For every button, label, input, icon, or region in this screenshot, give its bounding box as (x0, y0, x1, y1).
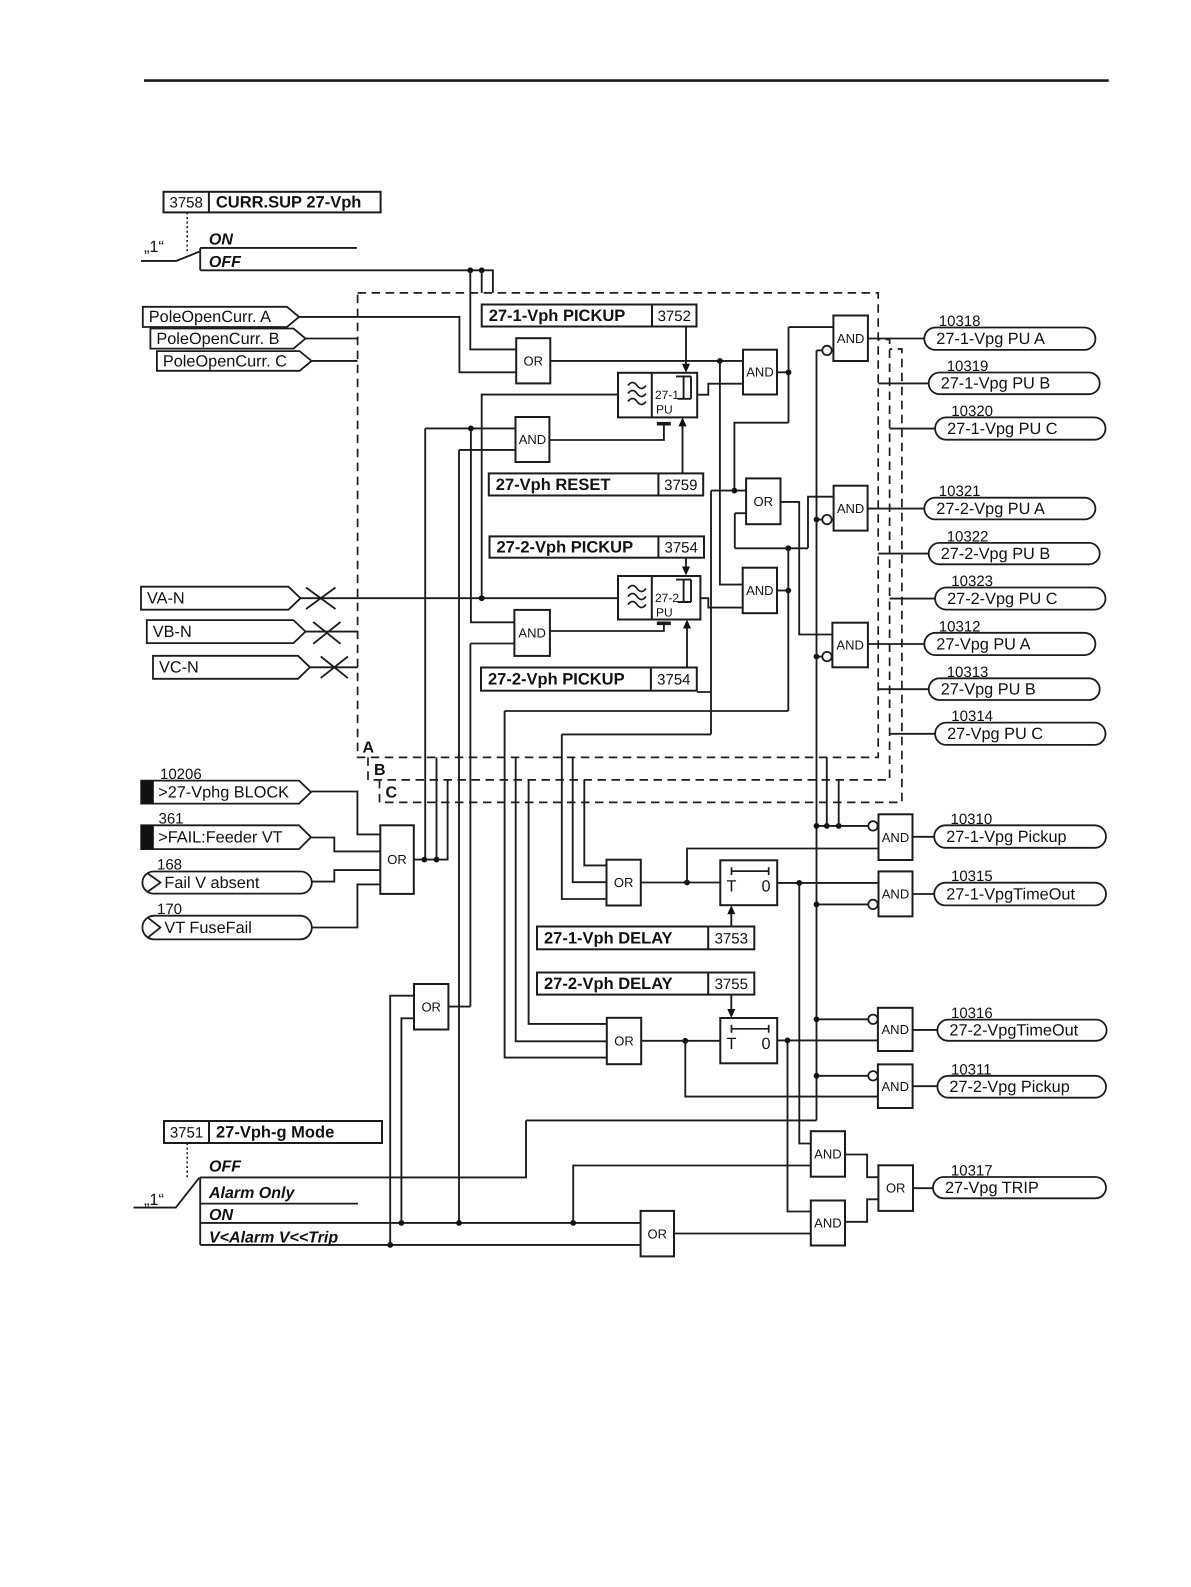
AND gate A2 (27-2 pickup A) (743, 568, 777, 614)
wire box B to pill 10319 (878, 382, 929, 384)
svg-text:PU: PU (656, 606, 673, 620)
wire G1 to pill 10318 (868, 338, 924, 340)
svg-text:3758: 3758 (170, 195, 203, 212)
input tag VA-N (141, 587, 301, 610)
svg-text:AND: AND (836, 638, 863, 653)
dashed phase box C (380, 349, 902, 802)
wire 3759 to measuring box 27-1 (682, 425, 684, 473)
svg-text:27-1-Vph DELAY: 27-1-Vph DELAY (544, 929, 673, 947)
svg-text:AND: AND (814, 1147, 841, 1162)
wire OR D2 output to timer T2 (641, 1040, 720, 1042)
svg-text:27-2-Vpg PU A: 27-2-Vpg PU A (936, 500, 1045, 518)
wire Alarm Only underline (200, 1203, 358, 1205)
svg-text:ON: ON (209, 1207, 233, 1224)
wire 27-1 pickup C to delay OR (584, 780, 606, 865)
output pill 10317 27-Vpg TRIP (933, 1163, 1106, 1199)
wire PoleOpenCurr.A to OR O1 (299, 317, 516, 372)
wire VB-N stub (306, 631, 358, 633)
output pill 10312 27-Vpg PU A (924, 618, 1095, 655)
AND gate A1 (27-1 pickup A) (743, 350, 777, 395)
junction V-Alarm (387, 1242, 393, 1248)
junction block G2 (814, 517, 820, 523)
svg-text:27-1-Vph PICKUP: 27-1-Vph PICKUP (489, 307, 626, 325)
AND gate G2 (27-2-Vpg PU A) (834, 486, 868, 531)
junction O1 output (717, 358, 723, 364)
svg-text:OR: OR (886, 1181, 906, 1196)
dashed phase box B (368, 339, 890, 780)
parameter box 3751 27-Vph-g Mode (164, 1121, 382, 1143)
svg-text:27-2-Vpg PU C: 27-2-Vpg PU C (947, 590, 1058, 608)
wire AND B2 output to reset bar 27-2 (550, 625, 664, 632)
output pill 10322 27-2-Vpg PU B (929, 528, 1100, 564)
wire block stub G3 (817, 656, 822, 658)
svg-text:27-1: 27-1 (655, 388, 679, 402)
wire 3755 to timer T2 (730, 995, 732, 1010)
AND gate T-bottom (27-2 trip) (811, 1201, 845, 1246)
svg-text:3754: 3754 (657, 672, 690, 689)
wire OFF-mode block riser (816, 350, 818, 1120)
wire ON to AND B1 input (459, 449, 516, 451)
svg-text:AND: AND (882, 887, 909, 902)
output pill 10311 27-2-Vpg Pickup (937, 1061, 1106, 1097)
wire V-Alarm to OR M2 (390, 996, 414, 1245)
wire pickup to AND P4 (685, 1041, 878, 1097)
wire block to AND P3 (817, 1018, 869, 1020)
junction block P3 (814, 1016, 820, 1022)
AND gate P3 (27-2-VpgTimeOut) (878, 1008, 913, 1051)
wire G3 to pill 10312 (868, 643, 924, 645)
wire OR D1 output to timer T1 (641, 882, 721, 884)
OR gate D2 (27-2 pickup) (607, 1018, 641, 1064)
AND gate T-top (27-1 trip) (811, 1131, 845, 1177)
wire enable to AND B2 input (471, 428, 515, 622)
wire to AND G1 input (789, 326, 834, 328)
svg-text:Fail V absent: Fail V absent (164, 874, 260, 892)
junction block/off A (814, 823, 820, 829)
svg-text:AND: AND (882, 1022, 909, 1037)
measuring box 27-2 PU (618, 576, 700, 620)
inverted input G3 (822, 652, 831, 661)
junction block P4 (814, 1073, 820, 1079)
wire T-top to OR TR (845, 1155, 878, 1178)
wire 27-1 pickup B to delay OR (573, 758, 607, 883)
input tag VB-N (147, 620, 306, 643)
wire block to AND P4 (817, 1075, 869, 1077)
wire PoleOpenCurr.B stub (306, 338, 358, 340)
svg-text:27-1-Vpg PU B: 27-1-Vpg PU B (941, 375, 1051, 393)
output pill 10319 27-1-Vpg PU B (929, 358, 1100, 394)
svg-text:3751: 3751 (170, 1125, 203, 1142)
wire VA-N to measuring box 27-1 (482, 395, 618, 599)
OR gate D1 (27-1 pickup) (607, 860, 641, 906)
wire OR TR output to 10317 (913, 1187, 933, 1189)
svg-text:VC-N: VC-N (159, 659, 199, 677)
svg-text:AND: AND (746, 365, 773, 380)
wire block stub G1 (817, 349, 822, 351)
wire OFF to box B (481, 270, 483, 293)
svg-text:>27-Vphg BLOCK: >27-Vphg BLOCK (158, 783, 289, 801)
switch 3758 dotted link (186, 212, 188, 254)
junction pickup net (785, 545, 791, 551)
wire 27-1 PU output to AND A1 (697, 384, 743, 395)
measuring box 27-1 PU (618, 373, 697, 418)
wire VA-N to measuring box 27-2 (301, 597, 619, 599)
input tag PoleOpenCurr. B (150, 329, 305, 349)
svg-text:OR: OR (421, 999, 441, 1014)
parameter box 3754 27-2-Vph PICKUP (lower) (481, 668, 697, 691)
svg-text:27-2-Vpg Pickup: 27-2-Vpg Pickup (949, 1078, 1069, 1096)
parameter box 3752 27-1-Vph PICKUP (482, 305, 697, 327)
junction VA-N branch (479, 595, 485, 601)
wire block to AND P2 (817, 903, 869, 905)
svg-text:27-Vph-g Mode: 27-Vph-g Mode (216, 1124, 334, 1142)
arrow 3755 to timer T2 (727, 1009, 735, 1018)
svg-text:OFF: OFF (209, 254, 242, 271)
junction ON 3 (570, 1220, 576, 1226)
junction block/off B (824, 823, 830, 829)
OR gate BL (block) (380, 825, 414, 894)
svg-text:3752: 3752 (658, 308, 691, 325)
svg-text:27-Vph RESET: 27-Vph RESET (496, 476, 611, 494)
OR gate M1 (27-1 or 27-2 pickup) (746, 478, 780, 524)
wire OR M2 output (448, 1006, 470, 1008)
output pill 10314 27-Vpg PU C (935, 708, 1105, 745)
reset bar 27-2 (657, 621, 671, 625)
junction D2 output (682, 1038, 688, 1044)
svg-text:T: T (727, 1035, 737, 1053)
wire G2 to pill 10321 (868, 508, 925, 510)
junction D1 output (684, 880, 690, 886)
junction block A (422, 857, 428, 863)
junction OFF/phase B (479, 267, 485, 273)
arrow pickup 3752 (682, 364, 690, 373)
wire mode bracket (199, 1177, 201, 1245)
wire 27-2 pickup A riser (505, 711, 607, 1058)
svg-text:OR: OR (614, 875, 634, 890)
parameter box 3759 27-Vph RESET (489, 473, 703, 495)
output pill 10315 27-1-VpgTimeOut (934, 868, 1106, 905)
svg-text:VT FuseFail: VT FuseFail (164, 919, 251, 937)
wire ON option line (200, 247, 357, 249)
wire T1 output to AND T-top (799, 883, 811, 1144)
parameter box 3758 CURR.SUP 27-Vph (164, 192, 381, 213)
junction block B (434, 857, 440, 863)
wire ON mode line (200, 1222, 640, 1224)
svg-text:27-2-VpgTimeOut: 27-2-VpgTimeOut (949, 1022, 1078, 1040)
svg-text:27-2-Vph PICKUP: 27-2-Vph PICKUP (488, 671, 625, 689)
AND gate P2 (27-1-VpgTimeOut) (879, 871, 913, 916)
wire OFF line to dashed box (200, 270, 493, 293)
wire P2 to pill 10315 (913, 893, 935, 895)
wire block drop C (838, 780, 840, 826)
AND gate B2 (reset condition 27-2) (514, 610, 550, 656)
output pill 10320 27-1-Vpg PU C (935, 403, 1105, 440)
wire 27-2 PU output to AND A2 (700, 598, 742, 607)
inverted input G2 (822, 515, 831, 524)
AND gate P4 (27-2-Vpg Pickup) (878, 1064, 913, 1108)
input tag >27-Vphg BLOCK (141, 781, 311, 804)
wire box C to pill 10320 (890, 428, 936, 430)
svg-text:0: 0 (762, 1035, 771, 1053)
junction block G3 (814, 654, 820, 660)
junction enable (468, 426, 474, 432)
wire timer T1 output to AND P2 (777, 882, 878, 884)
wire OR M1 input 2 (735, 512, 746, 514)
parameter box 3754 27-2-Vph PICKUP (upper) (490, 536, 705, 557)
switch 3758 arm (141, 252, 200, 261)
svg-text:3754: 3754 (665, 540, 698, 557)
input tag >FAIL:Feeder VT (141, 825, 311, 849)
svg-text:27-Vpg PU C: 27-Vpg PU C (947, 725, 1043, 743)
wire pickup A net (735, 547, 808, 549)
arrow reset 3759 (679, 417, 687, 426)
svg-text:Alarm Only: Alarm Only (208, 1185, 295, 1202)
AND gate B1 (reset condition 27-1) (516, 417, 550, 462)
svg-text:VB-N: VB-N (153, 623, 192, 641)
output pill 10313 27-Vpg PU B (929, 664, 1100, 700)
AND gate G1 (27-1-Vpg PU A) (833, 316, 868, 362)
svg-text:OFF: OFF (209, 1159, 242, 1176)
wire V-Alarm mode line (200, 1244, 640, 1246)
svg-text:27-Vpg PU B: 27-Vpg PU B (941, 680, 1036, 698)
wire OR BL output (414, 780, 448, 860)
signal pill VT FuseFail (142, 916, 311, 940)
inverted input P2 (868, 900, 877, 909)
svg-text:AND: AND (746, 583, 773, 598)
svg-text:27-2-Vph PICKUP: 27-2-Vph PICKUP (497, 539, 634, 557)
junction AND A2 output (785, 588, 791, 594)
parameter box 3755 27-2-Vph DELAY (537, 973, 754, 995)
input tag VC-N (153, 656, 310, 679)
wire VT FuseFail to OR BL (312, 884, 381, 927)
svg-text:CURR.SUP 27-Vph: CURR.SUP 27-Vph (216, 194, 361, 212)
svg-text:PoleOpenCurr. C: PoleOpenCurr. C (163, 352, 287, 370)
svg-text:„1“: „1“ (144, 1191, 164, 1209)
svg-text:AND: AND (519, 432, 546, 447)
svg-text:OR: OR (387, 852, 407, 867)
wire ON to AND T-top (573, 1166, 811, 1223)
wire mode-OR to AND B2 input (470, 643, 514, 645)
wire OR M1 output to AND G3 (781, 502, 833, 635)
svg-text:OR: OR (614, 1034, 634, 1049)
junction AND A1 output (786, 369, 792, 375)
svg-text:PoleOpenCurr. B: PoleOpenCurr. B (156, 330, 279, 348)
arrow reset to 27-2 (683, 620, 691, 629)
top horizontal rule (144, 79, 1109, 82)
svg-text:3753: 3753 (715, 930, 748, 947)
wire T-bottom to OR TR (845, 1199, 878, 1222)
wire T2 output to AND T-bottom (788, 1040, 811, 1211)
wire block riser B (436, 757, 438, 859)
svg-text:AND: AND (882, 1079, 909, 1094)
svg-text:B: B (374, 762, 386, 779)
wire block drop B (826, 757, 828, 826)
svg-text:ON: ON (209, 232, 233, 249)
wire PoleOpenCurr.C stub (312, 360, 358, 362)
wire to AND G2 input (808, 497, 834, 549)
OR gate M2 (mode active) (414, 984, 448, 1030)
wire block stub G2 (817, 519, 822, 521)
OR gate TR (trip) (878, 1165, 913, 1211)
svg-text:27-2-Vpg PU B: 27-2-Vpg PU B (941, 545, 1051, 563)
wire ON riser (458, 450, 460, 1223)
wire AND A1 output risers (788, 327, 790, 423)
svg-text:PoleOpenCurr. A: PoleOpenCurr. A (149, 308, 271, 326)
transducer cross VB (313, 622, 340, 644)
svg-text:27-2: 27-2 (655, 591, 679, 605)
svg-text:AND: AND (518, 626, 545, 641)
AND gate G3 (27-Vpg PU A) (832, 623, 868, 668)
wire box C to pill 10314 (890, 733, 936, 735)
wire OFF mode line (200, 1120, 526, 1177)
svg-text:AND: AND (814, 1216, 841, 1231)
wire ON to OR M2 (401, 1018, 414, 1223)
inverted input P4 (868, 1071, 877, 1080)
wire pickup A drop (710, 491, 712, 735)
OR gate M3 (trip modes) (641, 1211, 674, 1257)
wire block line to AND P1 (817, 825, 868, 827)
timer T1 (27-1 delay) (720, 860, 777, 905)
wire box B to pill 10322 (878, 553, 929, 555)
wire block to AND B1 input (425, 427, 515, 429)
inverted input P3 (868, 1015, 877, 1024)
svg-text:27-Vpg TRIP: 27-Vpg TRIP (945, 1179, 1039, 1197)
wire pickup to AND P1 (687, 849, 879, 883)
wire AND A1 output down to OR M1 (734, 423, 788, 490)
wire OR M1 input 1 (711, 490, 746, 492)
svg-text:3755: 3755 (715, 976, 748, 993)
svg-text:27-1-Vpg PU C: 27-1-Vpg PU C (947, 420, 1058, 438)
wire OFF-mode horizontal (526, 1119, 817, 1121)
inverted input G1 (822, 346, 831, 355)
AND gate P1 (27-1-Vpg Pickup) (879, 814, 913, 860)
wire box B to pill 10313 (878, 688, 929, 690)
input tag PoleOpenCurr. A (143, 307, 299, 327)
switch 3751 dotted link (186, 1143, 188, 1179)
junction ON 2 (456, 1220, 462, 1226)
wire timer T2 output to AND P3 (777, 1039, 878, 1041)
wire P3 to pill 10316 (913, 1029, 938, 1031)
output pill 10321 27-2-Vpg PU A (924, 483, 1095, 519)
output pill 10318 27-1-Vpg PU A (924, 313, 1095, 350)
junction block/off C (836, 823, 842, 829)
wire Fail V absent to OR BL (312, 870, 381, 882)
junction T1 output (796, 880, 802, 886)
svg-text:A: A (363, 740, 375, 757)
svg-text:27-1-Vpg Pickup: 27-1-Vpg Pickup (946, 828, 1066, 846)
svg-text:T: T (727, 878, 737, 896)
arrow pickup 3754 (682, 567, 690, 576)
wire 3753 to timer T1 (730, 913, 732, 927)
wire 27-2 pickup B riser (516, 758, 607, 1042)
svg-text:VA-N: VA-N (147, 590, 185, 608)
wire AND A2 output (777, 590, 788, 592)
transducer cross VC (321, 657, 348, 679)
arrow 3753 to timer T1 (727, 905, 735, 914)
OR gate O1 (pole-open/OFF) (516, 338, 550, 383)
reset bar 27-1 (657, 422, 671, 426)
svg-text:27-1-VpgTimeOut: 27-1-VpgTimeOut (946, 885, 1075, 903)
wire OR M3 output to AND T-bottom (674, 1233, 811, 1235)
wire 27-2 pickup A to delay OR (505, 710, 789, 712)
wire 27-1 pickup A to delay OR (562, 692, 711, 899)
wire P4 to pill 10311 (913, 1085, 938, 1087)
wire 3754 lower to measuring box 27-2 (686, 627, 688, 667)
wire OFF to OR O1 input (470, 270, 516, 349)
wire mode-OR riser (469, 644, 471, 1007)
switch 3751 arm (134, 1178, 200, 1208)
inverted input P1 (868, 821, 877, 830)
svg-text:>FAIL:Feeder VT: >FAIL:Feeder VT (158, 829, 282, 847)
wire P1 to pill 10310 (913, 836, 935, 838)
wire 3754 to measuring box 27-2 (685, 558, 687, 567)
svg-text:AND: AND (837, 331, 864, 346)
wire O1 output to AND A1 (550, 360, 743, 362)
parameter box 3753 27-1-Vph DELAY (537, 927, 754, 950)
wire VC-N stub (310, 666, 358, 668)
wire 3752 to measuring box (685, 327, 687, 365)
wire AND A1 output (777, 371, 789, 373)
input tag PoleOpenCurr. C (157, 351, 312, 371)
wire AND B1 output to reset bar (549, 425, 664, 440)
junction OFF/phase A (467, 267, 473, 273)
wire BLOCK to OR BL (311, 792, 380, 835)
junction block P2 (814, 902, 820, 908)
svg-text:V<Alarm V<<Trip: V<Alarm V<<Trip (209, 1230, 338, 1247)
wire AND A2 output riser/drop (787, 548, 789, 711)
signal pill Fail V absent (142, 872, 311, 894)
transducer cross VA (306, 588, 336, 610)
svg-text:27-2-Vph DELAY: 27-2-Vph DELAY (544, 975, 673, 993)
svg-text:AND: AND (882, 830, 909, 845)
svg-text:27-1-Vpg PU A: 27-1-Vpg PU A (936, 330, 1045, 348)
junction OR M1 input (732, 488, 738, 494)
wire switch bracket (199, 248, 201, 270)
svg-text:AND: AND (837, 501, 864, 516)
junction ON 1 (399, 1220, 405, 1226)
svg-text:PU: PU (656, 403, 673, 417)
output pill 10310 27-1-Vpg Pickup (934, 811, 1106, 848)
junction T2 output (785, 1038, 791, 1044)
wire O1 output to AND A2 (720, 361, 743, 585)
output pill 10323 27-2-Vpg PU C (935, 573, 1105, 610)
dashed phase box A (358, 293, 879, 758)
svg-text:„1“: „1“ (144, 238, 164, 256)
wire OR M1 input 2 riser (734, 513, 736, 548)
svg-text:OR: OR (648, 1226, 668, 1241)
wire box C to pill 10323 (890, 598, 936, 600)
timer T2 (27-2 delay) (720, 1018, 777, 1063)
svg-text:0: 0 (762, 878, 771, 896)
output pill 10316 27-2-VpgTimeOut (937, 1005, 1106, 1041)
wire FAIL to OR BL (312, 838, 381, 852)
svg-text:27-Vpg PU A: 27-Vpg PU A (936, 635, 1030, 653)
wire 27-2 pickup C riser (529, 780, 607, 1024)
svg-text:C: C (386, 785, 398, 802)
svg-text:OR: OR (524, 353, 544, 368)
svg-text:OR: OR (754, 494, 774, 509)
wire block riser phase A (424, 428, 426, 859)
svg-text:3759: 3759 (664, 477, 697, 494)
